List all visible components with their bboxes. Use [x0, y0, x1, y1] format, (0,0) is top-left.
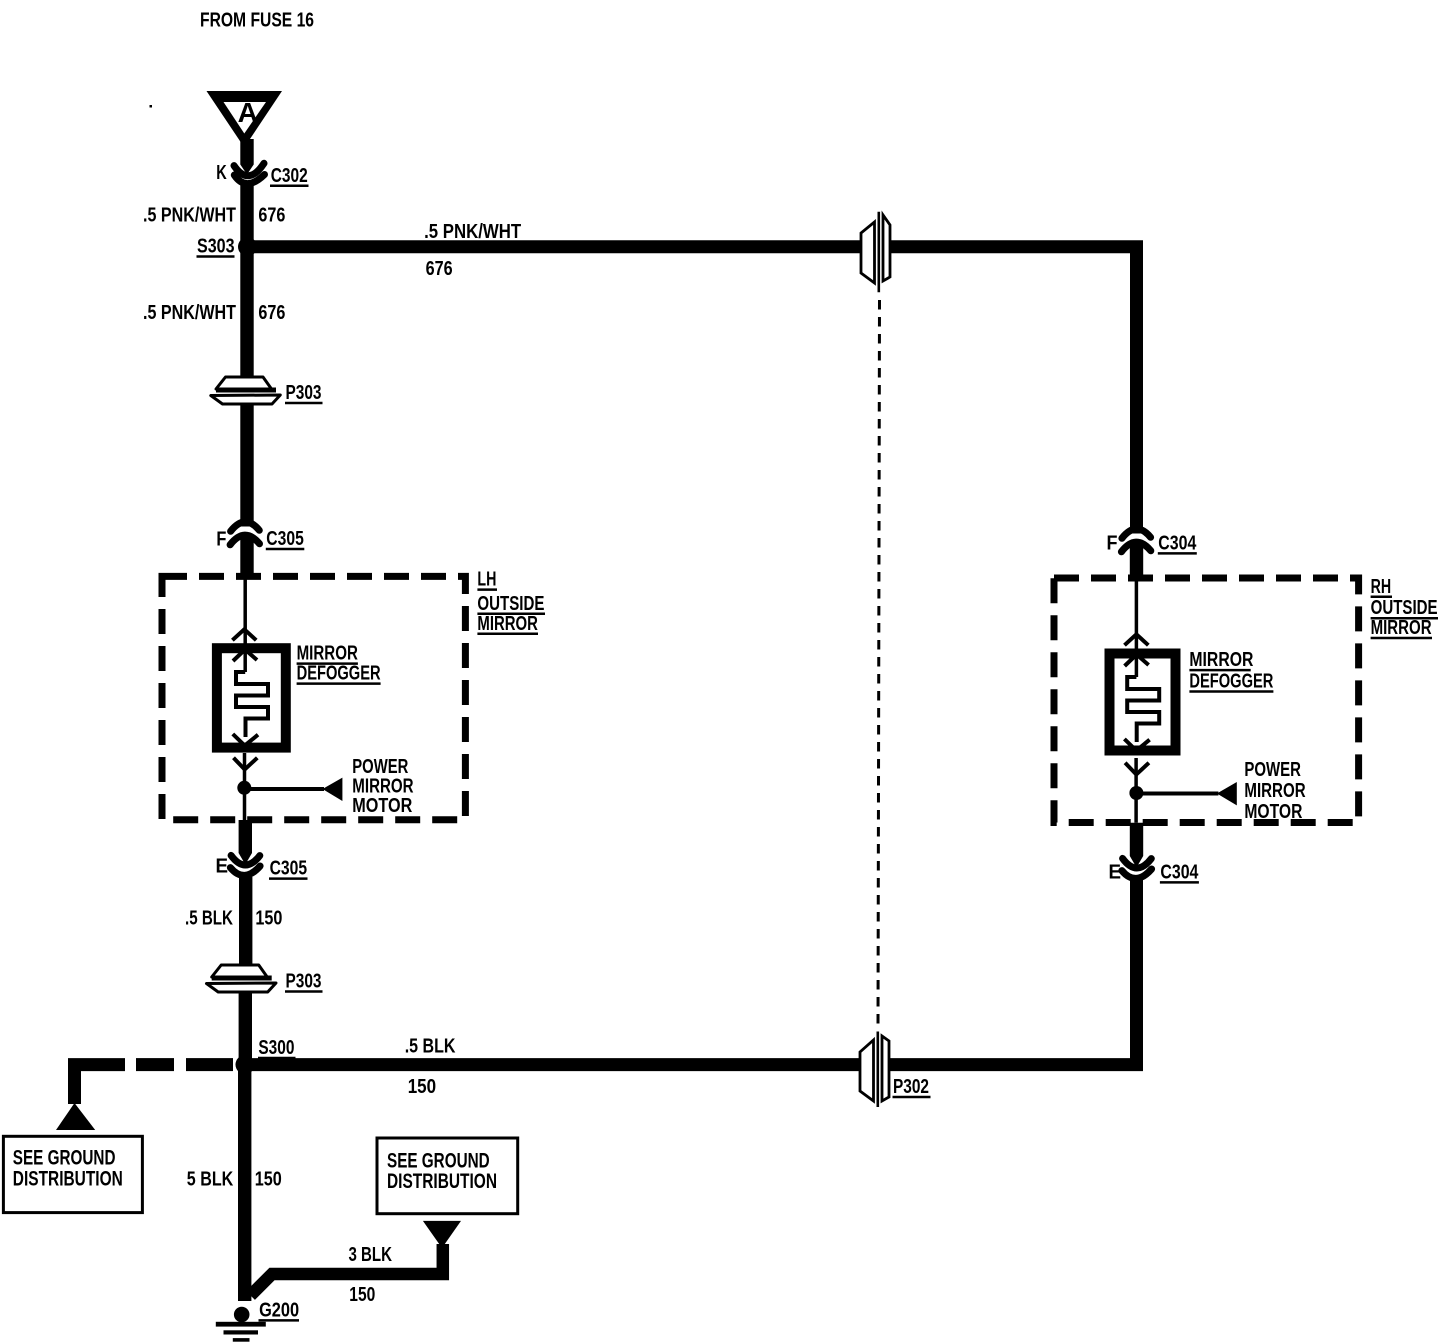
inline connector P302 (bottom bus) [860, 1032, 890, 1108]
svg-text:S300: S300 [258, 1037, 294, 1059]
svg-text:F: F [216, 528, 226, 550]
svg-text:MIRROR: MIRROR [1244, 780, 1306, 802]
dashed link line between inline connectors [878, 300, 880, 1026]
svg-text:150: 150 [255, 1168, 282, 1190]
svg-text:150: 150 [408, 1076, 436, 1098]
label .5 BLK 150 (LH lower) [185, 907, 282, 929]
svg-text:MIRROR: MIRROR [1371, 617, 1432, 639]
label P303 [285, 382, 323, 404]
grommet P303 (second) [207, 965, 277, 992]
chevron above defogger LH [232, 629, 256, 640]
wire: P303 to C305 pin F [240, 404, 253, 527]
speck (scan artifact) [150, 105, 153, 108]
label FROM FUSE 16 [200, 9, 314, 31]
svg-text:F: F [1107, 532, 1118, 554]
label .5 PNK/WHT 676 (below S303) [143, 302, 285, 324]
svg-text:C304: C304 [1158, 532, 1197, 554]
label RH OUTSIDE MIRROR [1371, 576, 1438, 639]
label MIRROR DEFOGGER (LH) [297, 643, 381, 685]
power mirror motor arrow RH [1217, 782, 1237, 805]
label .5 BLK (bottom bus) [405, 1036, 456, 1058]
triangle arrow from ground distribution (right) [423, 1221, 461, 1248]
chevron above defogger RH [1125, 634, 1149, 645]
svg-text:.5 PNK/WHT: .5 PNK/WHT [424, 221, 521, 243]
connector C305 (pin F) [230, 522, 259, 545]
wire: fuse feed to C302 [240, 139, 253, 175]
power mirror motor arrow LH [323, 778, 343, 801]
mirror defogger LH (heater element box) [217, 648, 286, 747]
svg-text:.5 PNK/WHT: .5 PNK/WHT [143, 204, 236, 226]
svg-text:FROM FUSE 16: FROM FUSE 16 [200, 9, 314, 31]
svg-text:RH: RH [1371, 576, 1392, 598]
label 676 (top bus) [426, 258, 453, 280]
wire (thin) defogger to box bottom LH [243, 753, 247, 820]
junction node RH mirror [1129, 786, 1143, 800]
label C304 (E) [1160, 861, 1199, 883]
svg-text:OUTSIDE: OUTSIDE [477, 593, 544, 615]
svg-text:P303: P303 [286, 382, 322, 404]
label 3 BLK [349, 1244, 393, 1266]
wire to power mirror motor RH [1136, 792, 1218, 796]
label F (RH pin) [1107, 532, 1118, 554]
mirror defogger RH (heater element box) [1110, 654, 1176, 751]
label E (RH pin) [1109, 861, 1122, 883]
wire: right ground branch to G200 [251, 1244, 443, 1296]
wire (thin) defogger to box bottom RH [1134, 758, 1138, 823]
svg-text:3 BLK: 3 BLK [349, 1244, 393, 1266]
svg-text:C304: C304 [1160, 861, 1199, 883]
label 150 (ground branch) [349, 1284, 375, 1306]
svg-text:OUTSIDE: OUTSIDE [1371, 597, 1438, 619]
wire: C302 to S303 [240, 186, 253, 248]
svg-text:MIRROR: MIRROR [297, 643, 359, 665]
label E (pin) [216, 856, 229, 878]
label C304 (F) [1158, 532, 1197, 554]
RH outside mirror box (dashed) [1054, 578, 1359, 823]
label K (pin) [216, 162, 227, 184]
label .5 PNK/WHT 676 (upper) [143, 204, 285, 226]
svg-text:676: 676 [258, 302, 285, 324]
label S300 [258, 1037, 296, 1059]
wire (thin) box entry to defogger LH [243, 578, 247, 672]
connector C305 (pin E) [230, 855, 260, 875]
svg-text:DISTRIBUTION: DISTRIBUTION [13, 1166, 123, 1190]
inline connector (top, in bus) [861, 212, 891, 293]
svg-text:DISTRIBUTION: DISTRIBUTION [387, 1169, 497, 1193]
LH outside mirror box (dashed) [162, 576, 465, 819]
wire: S303 to P303 [240, 247, 253, 378]
wire: P303 to S300 [239, 992, 252, 1064]
svg-text:P302: P302 [893, 1076, 929, 1098]
svg-text:K: K [216, 162, 227, 184]
connector C302 [234, 163, 265, 183]
svg-text:150: 150 [349, 1284, 375, 1306]
svg-text:676: 676 [258, 204, 285, 226]
svg-text:676: 676 [426, 258, 453, 280]
label P302 [893, 1076, 931, 1098]
svg-text:LH: LH [477, 569, 496, 591]
svg-text:C302: C302 [271, 165, 308, 187]
label C302 [270, 165, 309, 187]
wire to power mirror motor LH [244, 787, 324, 791]
svg-text:G200: G200 [259, 1299, 299, 1321]
svg-text:.5 BLK: .5 BLK [185, 907, 233, 929]
svg-text:S303: S303 [197, 236, 235, 258]
svg-text:MOTOR: MOTOR [352, 795, 412, 817]
label 5 BLK 150 [187, 1168, 282, 1190]
junction node LH mirror [237, 781, 251, 795]
svg-text:150: 150 [255, 907, 282, 929]
svg-text:P303: P303 [286, 971, 322, 993]
wire: RH box bottom to C304 pin E [1130, 823, 1143, 868]
chevron below defogger LH [234, 758, 258, 770]
svg-text:.5 PNK/WHT: .5 PNK/WHT [143, 302, 236, 324]
chevron below defogger RH [1125, 763, 1149, 775]
svg-text:POWER: POWER [1244, 759, 1301, 781]
label LH OUTSIDE MIRROR [477, 569, 545, 635]
svg-text:MIRROR: MIRROR [1189, 649, 1253, 671]
svg-text:DEFOGGER: DEFOGGER [297, 663, 381, 685]
grommet P303 [211, 377, 280, 404]
wire: LH box bottom to C305 pin E [239, 820, 252, 865]
connector C304 (pin E) [1122, 858, 1152, 878]
svg-text:A: A [238, 97, 258, 128]
wire: S300 down to G200 [238, 1065, 251, 1301]
label MIRROR DEFOGGER (RH) [1189, 649, 1273, 692]
wire: bottom bus S300 to RH corner up to C304 E [245, 877, 1137, 1065]
svg-text:5 BLK: 5 BLK [187, 1168, 234, 1190]
label 150 (bottom bus) [408, 1076, 436, 1098]
splice S300 [236, 1055, 255, 1074]
svg-text:.5 BLK: .5 BLK [405, 1036, 456, 1058]
svg-text:MIRROR: MIRROR [477, 613, 538, 635]
triangle arrow to ground distribution (left) [56, 1103, 95, 1130]
svg-text:E: E [216, 856, 229, 878]
svg-text:C305: C305 [270, 858, 308, 880]
wire: top bus S303 to RH corner down to C304 F [247, 247, 1137, 534]
label C305 (E) [269, 858, 308, 880]
power feed symbol A (from fuse 16) [207, 91, 283, 148]
wire: C305 E down to P303 [239, 877, 252, 978]
label F (pin) [216, 528, 226, 550]
label P303 (second) [285, 971, 323, 993]
SEE GROUND DISTRIBUTION box (left) [3, 1136, 142, 1212]
wire (thin) box entry to defogger RH [1135, 582, 1139, 678]
connector C304 (pin F) [1121, 529, 1150, 552]
label POWER MIRROR MOTOR (LH) [352, 756, 414, 817]
svg-text:DEFOGGER: DEFOGGER [1189, 671, 1273, 693]
label POWER MIRROR MOTOR (RH) [1244, 759, 1306, 823]
splice S303 [197, 236, 258, 258]
wire: C305 to LH mirror box [240, 537, 253, 578]
svg-text:MOTOR: MOTOR [1244, 801, 1302, 823]
ground G200 [216, 1299, 299, 1341]
SEE GROUND DISTRIBUTION box (right) [377, 1138, 518, 1214]
dashed ground branch wire (left of S300) [68, 1058, 233, 1104]
svg-text:C305: C305 [266, 528, 304, 550]
label .5 PNK/WHT (top bus) [424, 221, 521, 243]
label C305 (F) [266, 528, 305, 550]
wire: C304 to RH mirror box [1130, 544, 1143, 582]
